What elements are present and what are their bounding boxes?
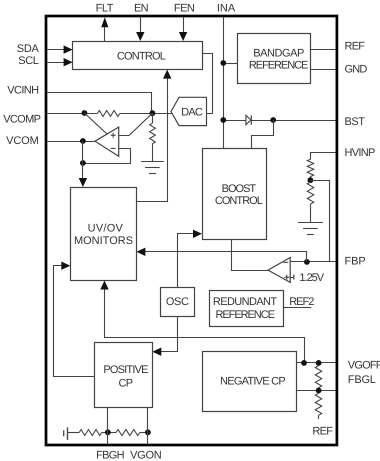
pin label SCL xyxy=(18,55,38,67)
resistor R5 xyxy=(315,366,321,388)
op-amp U1 xyxy=(95,127,119,156)
wire HVtap-FBP xyxy=(310,181,329,262)
arrowhead SCL xyxy=(64,58,73,66)
wire REF xyxy=(310,49,336,51)
wire POSCP-UVOV loop xyxy=(54,266,95,377)
pin label SDA xyxy=(17,43,40,55)
wire BST-BOOST jog xyxy=(252,120,274,148)
node VCOMP-branch xyxy=(82,110,88,116)
arrowhead into UVOV right xyxy=(136,248,145,256)
value label 1.25V xyxy=(299,272,324,284)
IC boundary xyxy=(46,16,337,445)
svg-text:REF2: REF2 xyxy=(289,296,314,308)
wire BST xyxy=(251,120,335,122)
svg-text:VCOM: VCOM xyxy=(6,135,39,147)
node FBP-branch xyxy=(304,259,310,265)
wire SDA xyxy=(47,49,66,51)
node feedback xyxy=(80,160,86,166)
svg-text:FBGL: FBGL xyxy=(348,374,376,386)
svg-text:FEN: FEN xyxy=(174,2,195,14)
wire VCINH xyxy=(47,93,152,114)
node DAC-sum xyxy=(150,110,156,116)
svg-text:CONTROL: CONTROL xyxy=(215,195,263,207)
pin label FBGH xyxy=(96,450,125,461)
pin label REF xyxy=(345,41,366,53)
wire pin FBGH xyxy=(107,408,109,444)
resistor R2 xyxy=(150,123,156,144)
svg-text:BST: BST xyxy=(345,116,366,128)
pin label FBP xyxy=(345,255,366,267)
svg-text:EN: EN xyxy=(134,2,149,14)
block UV/OV MONITORS xyxy=(71,188,137,281)
wire OSC-POSCP xyxy=(160,317,178,352)
wire BANDGAP input xyxy=(223,63,237,65)
svg-text:MONITORS: MONITORS xyxy=(74,235,133,247)
ground G2 xyxy=(298,223,323,235)
svg-text:REDUNDANT: REDUNDANT xyxy=(213,296,278,308)
wire HVINP xyxy=(311,153,336,160)
svg-text:FBP: FBP xyxy=(345,255,366,267)
svg-text:VGON: VGON xyxy=(130,450,162,461)
block BANDGAP REFERENCE xyxy=(238,34,311,84)
wire U2out-BOOST xyxy=(232,240,269,271)
wire R2-ground xyxy=(152,144,154,162)
wire INA net xyxy=(223,17,225,148)
node FBGH xyxy=(105,429,111,435)
pin label VCOMP xyxy=(3,113,40,125)
capacitor C1 xyxy=(64,427,68,440)
node BST-branch xyxy=(270,117,276,123)
node VGON xyxy=(145,429,151,435)
svg-text:VCINH: VCINH xyxy=(7,85,39,97)
node VCOM-output xyxy=(80,138,86,144)
resistor R7 xyxy=(79,430,101,436)
wire U1 +input xyxy=(119,113,153,135)
svg-text:CP: CP xyxy=(119,378,133,390)
node VGOFF-R5 xyxy=(316,360,322,366)
wire R8-node xyxy=(140,432,148,434)
wire R6 stub xyxy=(318,415,320,419)
wire VCOM xyxy=(47,141,95,143)
node HV-tap xyxy=(308,177,314,183)
wire CONTROL-DAC xyxy=(202,54,213,114)
wire GND xyxy=(310,69,336,71)
wire FLT xyxy=(104,25,106,42)
arrowhead SDA xyxy=(64,45,73,53)
svg-text:HVINP: HVINP xyxy=(345,147,375,159)
wire R7-node xyxy=(102,432,116,434)
reference 1.25V stub xyxy=(290,275,294,280)
pin label GND xyxy=(345,64,368,76)
block REDUNDANT REFERENCE xyxy=(210,291,284,327)
block DAC xyxy=(171,97,207,125)
arrowhead FEN down xyxy=(179,32,187,41)
arrowhead into UVOV bottom xyxy=(100,281,108,290)
wire R1-DACnode xyxy=(120,113,172,115)
resistor R1 xyxy=(97,111,119,117)
svg-text:VGOFF: VGOFF xyxy=(348,360,380,372)
arrowhead into BOOST left xyxy=(193,230,202,238)
wire OSC-BOOST xyxy=(178,234,195,288)
pin label VGON xyxy=(130,450,162,461)
svg-text:FLT: FLT xyxy=(96,2,114,14)
net label REF2 xyxy=(289,296,314,308)
svg-text:INA: INA xyxy=(217,2,236,14)
pin label VGOFF xyxy=(348,360,380,372)
ground G1 xyxy=(141,162,164,174)
arrowhead EN down xyxy=(136,32,144,41)
wire SCL xyxy=(47,62,66,64)
svg-text:SDA: SDA xyxy=(17,43,40,55)
block OSC xyxy=(161,288,195,317)
wire U1 -input feedback xyxy=(83,149,131,164)
block POSITIVE CP xyxy=(95,343,153,408)
arrowhead into POSCP right xyxy=(152,348,161,356)
resistor R8 xyxy=(116,430,140,436)
resistor R3 xyxy=(307,159,313,176)
wire FEN xyxy=(183,17,185,33)
svg-text:UV/OV: UV/OV xyxy=(88,223,124,235)
pin label INA xyxy=(217,2,236,14)
resistor R6 xyxy=(315,393,321,415)
wire VCOMP xyxy=(47,113,97,115)
pin label HVINP xyxy=(345,147,375,159)
wire VCOMP-U1 diagonal xyxy=(84,113,107,135)
arrowhead into CONTROL bottom xyxy=(163,70,171,79)
wire FBP xyxy=(290,261,335,263)
wire C1-R7 xyxy=(68,432,80,434)
wire pin VGON xyxy=(147,408,149,444)
pin label FEN xyxy=(174,2,195,14)
arrowhead FLT up xyxy=(101,17,108,27)
arrowhead into UVOV top xyxy=(79,178,87,187)
pin label VCINH xyxy=(7,85,39,97)
svg-text:CONTROL: CONTROL xyxy=(117,51,166,63)
block CONTROL xyxy=(73,42,203,70)
wire UVOV-CONTROL xyxy=(136,78,167,202)
resistor R4 xyxy=(307,182,313,204)
wire INA-diode xyxy=(223,120,246,122)
svg-text:BOOST: BOOST xyxy=(222,183,257,195)
svg-text:1.25V: 1.25V xyxy=(299,272,324,284)
comparator U2 xyxy=(268,258,290,283)
wire R4-ground xyxy=(310,204,312,223)
svg-text:BANDGAP: BANDGAP xyxy=(253,47,304,59)
wire REF2 stub xyxy=(283,307,311,309)
arrowhead into UVOV left xyxy=(61,262,70,270)
wire UVOV-VGOFF xyxy=(105,287,305,363)
pin label FBGL xyxy=(348,374,376,386)
wire output bus xyxy=(82,141,84,181)
pin label EN xyxy=(134,2,149,14)
node VGOFF-riser xyxy=(301,360,307,366)
pin label BST xyxy=(345,116,366,128)
svg-text:VCOMP: VCOMP xyxy=(3,113,40,125)
wire DACnode-R2 xyxy=(152,113,154,123)
svg-text:SCL: SCL xyxy=(18,55,38,67)
wire R3-node xyxy=(310,177,312,183)
svg-text:POSITIVE: POSITIVE xyxy=(103,364,148,376)
pin label FLT xyxy=(96,2,114,14)
pin label VCOM xyxy=(6,135,39,147)
svg-text:FBGH: FBGH xyxy=(96,450,125,461)
node INA-diode xyxy=(220,117,226,123)
svg-text:OSC: OSC xyxy=(166,296,189,308)
svg-text:REFERENCE: REFERENCE xyxy=(215,309,274,321)
svg-text:NEGATIVE CP: NEGATIVE CP xyxy=(220,376,285,388)
wire EN xyxy=(140,17,142,33)
diode D1 xyxy=(246,115,251,124)
wire FBP-UVOV xyxy=(144,252,307,262)
svg-text:REF: REF xyxy=(345,41,366,53)
svg-text:DAC: DAC xyxy=(181,107,203,119)
svg-text:GND: GND xyxy=(345,64,368,76)
node FBGL-R6 xyxy=(316,388,322,394)
block NEGATIVE CP xyxy=(203,352,297,412)
wire VGOFF xyxy=(297,362,336,364)
node INA-bandgap xyxy=(220,60,226,66)
wire FBGL xyxy=(297,390,336,392)
net label REF bottom xyxy=(312,426,333,438)
block BOOST CONTROL xyxy=(203,149,267,240)
svg-text:REFERENCE: REFERENCE xyxy=(249,59,308,71)
svg-text:REF: REF xyxy=(312,426,333,438)
